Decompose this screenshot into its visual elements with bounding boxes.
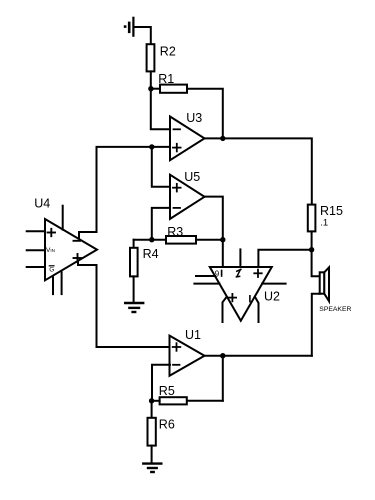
wire bbox=[258, 250, 311, 267]
wire bbox=[239, 249, 241, 267]
wire bbox=[152, 208, 170, 240]
wire bbox=[196, 239, 223, 241]
svg-text:U3: U3 bbox=[186, 111, 202, 125]
svg-text:R3: R3 bbox=[167, 225, 183, 239]
wire bbox=[205, 138, 312, 204]
wire bbox=[152, 400, 160, 402]
svg-text:R6: R6 bbox=[159, 417, 175, 431]
wire bbox=[205, 355, 312, 357]
svg-text:U5: U5 bbox=[184, 170, 200, 184]
resistor R4 bbox=[130, 248, 138, 277]
wire bbox=[196, 275, 215, 277]
resistor R3 bbox=[166, 236, 196, 244]
wire bbox=[152, 147, 170, 187]
svg-text:R15: R15 bbox=[320, 204, 343, 218]
node E bbox=[220, 237, 225, 242]
wire bbox=[151, 88, 160, 90]
wire bbox=[311, 231, 313, 249]
wire bbox=[152, 365, 170, 401]
wire bbox=[262, 283, 285, 285]
resistor R1 bbox=[160, 85, 187, 93]
svg-text:.1: .1 bbox=[320, 217, 328, 228]
wire bbox=[223, 297, 227, 322]
wire bbox=[312, 294, 320, 356]
battery V1 bbox=[124, 18, 134, 36]
wire bbox=[187, 400, 223, 402]
wire bbox=[27, 230, 45, 232]
wire bbox=[52, 277, 54, 294]
wire bbox=[62, 206, 64, 230]
resistor R2 bbox=[147, 44, 155, 71]
svg-text:VIN: VIN bbox=[46, 247, 55, 254]
wire bbox=[151, 401, 153, 418]
svg-text:SPEAKER: SPEAKER bbox=[319, 306, 351, 313]
wire bbox=[187, 89, 223, 139]
wire bbox=[79, 147, 170, 239]
wire bbox=[150, 71, 152, 88]
pin 2 squiggle bbox=[236, 269, 240, 277]
op-amp U2 bbox=[210, 267, 272, 321]
ground bbox=[143, 464, 161, 472]
wire bbox=[151, 446, 153, 463]
wire bbox=[78, 261, 170, 348]
wire bbox=[222, 356, 224, 401]
wire bbox=[205, 197, 223, 267]
wire bbox=[133, 276, 135, 302]
resistor R15 bbox=[308, 205, 316, 232]
ground bbox=[125, 303, 143, 312]
wire bbox=[61, 272, 63, 294]
svg-text:U1: U1 bbox=[185, 328, 201, 342]
op-amp U3 bbox=[170, 117, 205, 161]
op-amp U4 bbox=[45, 219, 97, 280]
node B bbox=[149, 144, 154, 149]
wire bbox=[27, 249, 45, 251]
wire bbox=[312, 250, 320, 277]
svg-text:R5: R5 bbox=[159, 384, 175, 398]
svg-text:U4: U4 bbox=[34, 197, 50, 211]
op-amp U1 bbox=[170, 336, 205, 376]
speaker LS1 bbox=[320, 267, 329, 301]
svg-text:R2: R2 bbox=[160, 45, 176, 59]
node D bbox=[149, 237, 154, 242]
svg-text:R1: R1 bbox=[158, 72, 174, 86]
resistor R5 bbox=[160, 397, 187, 404]
wire bbox=[27, 266, 45, 268]
svg-text:9: 9 bbox=[215, 270, 220, 279]
wire bbox=[256, 298, 259, 322]
resistor R6 bbox=[148, 418, 156, 446]
node H bbox=[309, 247, 314, 252]
node G bbox=[149, 398, 154, 403]
svg-text:U2: U2 bbox=[264, 290, 280, 304]
node A bbox=[148, 86, 153, 91]
wire bbox=[134, 239, 166, 241]
svg-text:G: G bbox=[49, 266, 54, 273]
wire bbox=[151, 89, 170, 130]
node C bbox=[220, 136, 225, 141]
wire bbox=[133, 240, 135, 248]
node F bbox=[220, 353, 225, 358]
wire bbox=[194, 283, 219, 285]
op-amp U5 bbox=[170, 175, 205, 219]
wire bbox=[135, 27, 151, 45]
svg-text:R4: R4 bbox=[143, 247, 159, 261]
